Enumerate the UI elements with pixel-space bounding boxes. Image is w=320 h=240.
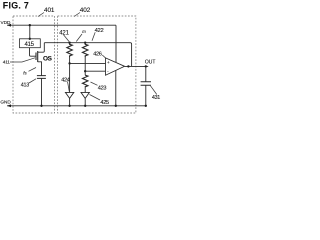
leader m — [76, 34, 82, 42]
capacitor C413 — [37, 76, 46, 79]
current source 424 triangle — [65, 92, 73, 98]
leader 413 — [29, 79, 36, 83]
transistor Q411 channel bar — [37, 51, 39, 62]
block 415 — [20, 39, 41, 48]
node output junction — [127, 65, 129, 67]
leader 421 — [64, 35, 70, 42]
wire C431 to GND — [145, 85, 147, 106]
svg-text:402: 402 — [80, 7, 91, 14]
wire OS feedback line — [44, 43, 131, 67]
svg-text:424: 424 — [61, 77, 70, 83]
op-amp U426 — [106, 58, 125, 75]
leader 402 — [74, 13, 80, 17]
wire VDD drop to op-amp power pin — [115, 25, 117, 62]
svg-text:m: m — [82, 29, 86, 34]
wire plus input to op-amp — [70, 62, 106, 64]
VDD arrowhead — [7, 24, 11, 27]
node minus junction — [84, 70, 86, 72]
leader 425 — [90, 95, 101, 101]
wire R421 to plus node — [69, 57, 71, 63]
current source 425 triangle — [81, 92, 89, 98]
node plus junction — [68, 62, 70, 64]
node 424-GND junction — [68, 105, 70, 107]
wire R422 to minus node — [84, 57, 86, 71]
svg-text:VDD: VDD — [1, 20, 12, 25]
node C431-GND junction — [145, 105, 147, 107]
transistor Q411 gate bar — [35, 53, 37, 61]
node opamp-GND junction — [115, 105, 117, 107]
svg-text:415: 415 — [25, 42, 35, 48]
node 425-GND junction — [84, 105, 86, 107]
wire OUT to C431 — [145, 66, 147, 81]
svg-text:426: 426 — [93, 51, 102, 57]
wire VDD rail — [7, 24, 116, 26]
leader 401 — [38, 13, 44, 17]
node R421 top junction — [68, 42, 70, 44]
wire R423 to current source 425 — [84, 87, 86, 93]
svg-text:422: 422 — [95, 28, 104, 34]
capacitor C431 — [141, 82, 151, 86]
svg-text:431: 431 — [152, 95, 160, 101]
node R422 top junction — [84, 42, 86, 44]
wire C413 to GND — [41, 78, 43, 105]
leader 422 — [92, 32, 95, 41]
wire 415 to gate of Q411 — [30, 48, 36, 57]
svg-text:411: 411 — [3, 60, 10, 66]
svg-text:421: 421 — [59, 30, 69, 36]
wire op-amp ground pin — [115, 70, 117, 105]
node C413-GND junction — [40, 105, 42, 107]
leader 431 — [151, 86, 157, 95]
GND arrowhead — [7, 104, 11, 107]
wire minus input to op-amp — [85, 70, 105, 72]
leader 411 — [10, 58, 35, 62]
node 415 top junction — [29, 38, 31, 40]
svg-text:FIG. 7: FIG. 7 — [3, 1, 29, 11]
dashed box 401 — [13, 16, 55, 113]
svg-text:GND: GND — [0, 100, 11, 105]
leader 424 — [68, 82, 70, 92]
svg-text:OS: OS — [43, 55, 53, 62]
svg-text:OUT: OUT — [145, 60, 156, 66]
svg-text:425: 425 — [100, 100, 109, 106]
leader 423 — [91, 82, 98, 85]
resistor R423 — [82, 75, 87, 87]
resistor R422 — [82, 43, 87, 57]
wire output — [125, 65, 149, 67]
wire 424 to GND — [69, 98, 71, 105]
wire 425 to GND — [84, 98, 86, 105]
svg-text:423: 423 — [98, 86, 107, 92]
node VDD-415 junction — [29, 24, 31, 26]
svg-text:401: 401 — [44, 7, 55, 14]
wire node to current source 424 — [69, 63, 71, 92]
wire Q411 drain to OS feedback line — [38, 43, 45, 53]
wire VDD stub into 415 — [29, 25, 31, 39]
svg-text:413: 413 — [21, 83, 29, 89]
wire Q411 source to C413 — [38, 62, 42, 76]
leader fs — [29, 68, 37, 72]
wire GND rail — [7, 105, 146, 107]
node out-C431 junction — [145, 65, 147, 67]
resistor R421 — [67, 43, 72, 57]
leader 426 — [102, 55, 106, 58]
wire R422 node down to R423 — [84, 71, 86, 75]
dashed box 402 — [58, 16, 136, 113]
